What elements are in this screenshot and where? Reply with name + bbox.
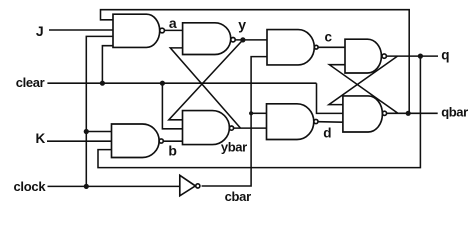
svg-text:c: c bbox=[325, 30, 333, 45]
svg-text:b: b bbox=[168, 142, 177, 158]
svg-text:J: J bbox=[36, 23, 44, 39]
svg-text:qbar: qbar bbox=[441, 105, 468, 120]
svg-text:clock: clock bbox=[14, 179, 47, 194]
svg-text:a: a bbox=[169, 15, 177, 31]
svg-text:cbar: cbar bbox=[225, 189, 252, 204]
svg-text:y: y bbox=[238, 16, 246, 32]
svg-text:d: d bbox=[323, 126, 331, 141]
svg-text:K: K bbox=[36, 131, 46, 146]
svg-text:q: q bbox=[441, 48, 449, 63]
svg-text:clear: clear bbox=[16, 75, 45, 90]
svg-text:ybar: ybar bbox=[221, 140, 247, 155]
